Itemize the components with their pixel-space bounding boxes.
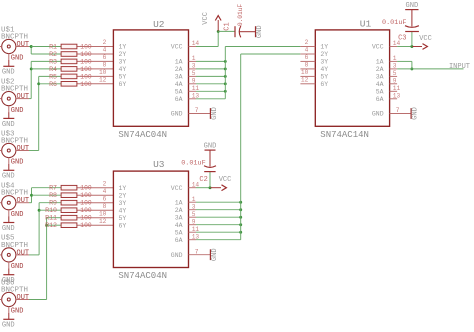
svg-text:GND: GND [211, 107, 219, 120]
svg-text:9: 9 [393, 77, 397, 84]
svg-text:R12: R12 [45, 222, 57, 229]
svg-text:VCC: VCC [171, 44, 183, 51]
svg-text:R10: R10 [45, 207, 57, 214]
U3 pin 7 GND stub [189, 248, 211, 255]
junction on bus2 at row 5A [239, 231, 242, 234]
svg-text:GND: GND [171, 111, 183, 118]
svg-text:5: 5 [192, 211, 196, 218]
ground symbol below U$1 [2, 60, 15, 77]
svg-text:GND: GND [11, 211, 24, 219]
capacitor C3 0.01uF [382, 19, 419, 47]
svg-text:6Y: 6Y [119, 81, 127, 88]
junction on bus at row 2A [224, 67, 227, 70]
U1 pin 10 (=5Y) stub [300, 69, 315, 76]
svg-text:8: 8 [103, 62, 107, 69]
svg-text:1A: 1A [175, 59, 183, 66]
svg-text:GND: GND [204, 142, 217, 150]
svg-text:5A: 5A [175, 88, 183, 95]
svg-text:5A: 5A [376, 88, 384, 95]
U2 pin 13 (=6A) stub and net wire [189, 92, 226, 99]
svg-text:11: 11 [393, 85, 401, 92]
wire U$3 OUT to R5/R6 [29, 76, 39, 150]
junction on bus2 at row 2A [239, 208, 242, 211]
ground symbol below U$5 [2, 268, 15, 285]
wire U1 pin 1 to INPUT node [397, 61, 412, 69]
junction INPUT node [410, 67, 413, 70]
svg-text:4: 4 [305, 47, 309, 54]
wire bus U3 to U1 pin 4 [241, 53, 301, 55]
svg-text:8: 8 [305, 62, 309, 69]
svg-text:R3: R3 [49, 58, 57, 65]
U3 pin 13 (=6A) stub and net wire [189, 233, 241, 240]
svg-text:7: 7 [195, 248, 199, 255]
svg-text:12: 12 [99, 218, 107, 225]
svg-text:3A: 3A [376, 74, 384, 81]
svg-text:100: 100 [80, 185, 92, 192]
wire U$4 OUT to R7/R8 [29, 188, 32, 203]
ground symbol above C2 [204, 142, 217, 150]
U2 pin 9 (=4A) stub and net wire [189, 77, 226, 84]
svg-text:C3: C3 [398, 34, 406, 42]
VCC symbol (right arrow) at U3 [210, 176, 231, 190]
svg-text:6: 6 [103, 195, 107, 202]
svg-text:4Y: 4Y [119, 207, 127, 214]
junction at (32,195) [30, 194, 33, 197]
svg-text:C1: C1 [224, 22, 232, 30]
svg-text:100: 100 [80, 81, 92, 88]
svg-text:100: 100 [80, 222, 92, 229]
svg-text:1Y: 1Y [320, 44, 328, 51]
wire bus U3 outputs (vertical) [240, 54, 242, 240]
svg-text:100: 100 [80, 58, 92, 65]
VCC symbol (right arrow) at U1 [412, 35, 432, 49]
svg-text:13: 13 [393, 92, 401, 99]
U1 pin 1 (=1A) stub [390, 55, 398, 62]
U1 pin 6 (=3Y) stub [300, 54, 315, 61]
svg-text:3Y: 3Y [119, 59, 127, 66]
svg-text:5Y: 5Y [119, 215, 127, 222]
svg-text:GND: GND [11, 107, 24, 115]
svg-text:R8: R8 [49, 192, 57, 199]
svg-text:U3: U3 [153, 159, 165, 170]
U3 pin 1 (=1A) stub and net wire [189, 196, 241, 203]
svg-text:10: 10 [301, 69, 309, 76]
U2 pin 14 VCC stub and wire [189, 31, 219, 47]
svg-text:9: 9 [192, 77, 196, 84]
wire C2 to ground [209, 150, 211, 167]
op-amp/IC U3 SN74AC04N box [113, 171, 188, 267]
junction on bus at row 3A [224, 75, 227, 78]
svg-text:1A: 1A [175, 199, 183, 206]
svg-text:C2: C2 [199, 176, 207, 184]
svg-text:6: 6 [103, 54, 107, 61]
svg-text:GND: GND [11, 308, 24, 316]
svg-text:100: 100 [80, 200, 92, 207]
resistor R9 value 100 [39, 200, 113, 207]
ground symbol at U2 pin 7 [210, 107, 219, 120]
U1 pin 14 VCC stub and wire [390, 40, 412, 47]
wire net INPUT [397, 68, 463, 70]
wire U$5 OUT to R9/R10 [29, 203, 39, 255]
U2 pin 11 (=5A) stub and net wire [189, 85, 226, 92]
svg-text:OUT: OUT [17, 41, 30, 49]
wire C1 to ground [240, 31, 256, 33]
U1 pin 7 GND stub [390, 107, 412, 114]
resistor R5 value 100 [39, 73, 114, 80]
svg-text:GND: GND [412, 107, 420, 120]
svg-text:12: 12 [301, 76, 309, 83]
svg-text:OUT: OUT [17, 249, 30, 257]
U1 pin 12 (=6Y) stub [300, 76, 315, 83]
junction VCC node at U2 [217, 30, 220, 33]
connector U$5 (BNCPTH) [0, 235, 29, 271]
svg-text:GND: GND [2, 225, 15, 233]
svg-text:11: 11 [192, 85, 200, 92]
svg-text:R5: R5 [49, 73, 57, 80]
resistor R4 value 100 [31, 66, 113, 73]
connector U$2 (BNCPTH) [0, 78, 29, 114]
svg-text:GND: GND [2, 121, 15, 129]
U1 pin 5 (=3A) stub [390, 70, 398, 77]
U2 pin 7 GND stub [189, 107, 211, 114]
junction on bus at row 4A [224, 82, 227, 85]
svg-text:GND: GND [2, 322, 15, 330]
junction VCC node at U1 [410, 45, 413, 48]
svg-text:2Y: 2Y [119, 192, 127, 199]
junction on bus2 at row 3A [239, 216, 242, 219]
svg-text:1Y: 1Y [119, 185, 127, 192]
junction on bus at row 1A [224, 60, 227, 63]
svg-text:13: 13 [192, 92, 200, 99]
svg-text:VCC: VCC [171, 185, 183, 192]
svg-text:3A: 3A [175, 214, 183, 221]
connector U$3 (BNCPTH) [0, 130, 29, 166]
svg-text:2: 2 [103, 180, 107, 187]
wire C3 to ground [411, 10, 413, 27]
svg-text:GND: GND [372, 111, 384, 118]
svg-text:GND: GND [2, 69, 15, 77]
svg-text:R7: R7 [49, 185, 57, 192]
junction on bus2 at row 4A [239, 223, 242, 226]
svg-text:VCC: VCC [372, 44, 384, 51]
U3 pin 14 VCC stub and wire [189, 181, 211, 188]
U3 pin 11 (=5A) stub and net wire [189, 226, 241, 233]
U1 pin 2 (=1Y) stub [300, 39, 315, 46]
svg-text:INPUT: INPUT [449, 63, 470, 71]
U1 pin 9 (=4A) stub [390, 77, 398, 84]
svg-text:4Y: 4Y [119, 66, 127, 73]
junction at (31,69) [30, 67, 33, 70]
svg-text:4A: 4A [175, 222, 183, 229]
wire bus U2 outputs (vertical) [224, 47, 226, 99]
svg-text:R6: R6 [49, 81, 57, 88]
ground symbol below U$4 [2, 216, 15, 233]
svg-text:2: 2 [305, 39, 309, 46]
junction on bus2 at row 1A [239, 201, 242, 204]
svg-text:R4: R4 [49, 66, 57, 73]
svg-text:7: 7 [195, 107, 199, 114]
svg-text:2Y: 2Y [320, 51, 328, 58]
svg-text:GND: GND [171, 252, 183, 259]
ground symbol at U1 pin 7 [411, 107, 420, 120]
svg-text:4A: 4A [376, 81, 384, 88]
svg-text:6: 6 [305, 54, 309, 61]
svg-text:11: 11 [192, 226, 200, 233]
svg-text:U2: U2 [153, 19, 165, 30]
resistor R2 value 100 [31, 51, 113, 58]
svg-text:GND: GND [406, 2, 419, 10]
wire U$1 OUT to R1/R2 [29, 47, 31, 55]
svg-text:1A: 1A [376, 59, 384, 66]
svg-text:2A: 2A [175, 66, 183, 73]
svg-text:100: 100 [80, 43, 92, 50]
svg-text:14: 14 [192, 181, 200, 188]
resistor R10 value 100 [39, 207, 113, 214]
svg-text:OUT: OUT [17, 197, 30, 205]
svg-text:100: 100 [80, 73, 92, 80]
svg-text:7: 7 [396, 107, 400, 114]
wire U$2 OUT to R3/R4 [29, 61, 31, 98]
svg-text:GND: GND [2, 173, 15, 181]
svg-text:12: 12 [99, 76, 107, 83]
connector U$4 (BNCPTH) [0, 183, 29, 219]
svg-text:3: 3 [393, 63, 397, 70]
svg-text:GND: GND [11, 263, 24, 271]
svg-text:R11: R11 [45, 215, 57, 222]
svg-text:SN74AC04N: SN74AC04N [118, 271, 167, 281]
junction on bus at row 5A [224, 90, 227, 93]
svg-text:3Y: 3Y [320, 59, 328, 66]
svg-text:2A: 2A [376, 66, 384, 73]
svg-text:5: 5 [192, 70, 196, 77]
svg-text:U1: U1 [360, 19, 372, 30]
svg-text:1: 1 [393, 55, 397, 62]
svg-text:R9: R9 [49, 200, 57, 207]
wire U$6 OUT to R11/R12 [29, 218, 47, 300]
svg-text:GND: GND [211, 248, 219, 261]
junction VCC node at U3 [209, 186, 212, 189]
ground symbol right of C1 [256, 25, 264, 38]
junction at (39,210) [38, 209, 41, 212]
svg-text:VCC: VCC [202, 12, 210, 25]
capacitor C1 0.01uF [218, 4, 244, 38]
svg-text:0.01uF: 0.01uF [237, 4, 244, 27]
svg-text:2: 2 [103, 39, 107, 46]
svg-text:3: 3 [192, 203, 196, 210]
ground symbol below U$3 [2, 164, 15, 181]
svg-text:3Y: 3Y [119, 200, 127, 207]
svg-text:4: 4 [103, 188, 107, 195]
op-amp/IC U2 SN74AC04N box [113, 30, 188, 126]
svg-text:3: 3 [192, 63, 196, 70]
svg-text:4Y: 4Y [320, 66, 328, 73]
svg-text:VCC: VCC [419, 35, 432, 43]
op-amp/IC U1 SN74AC14N box [315, 30, 389, 126]
U1 pin 13 (=6A) stub [390, 92, 401, 99]
svg-text:GND: GND [256, 25, 264, 38]
junction at (47,225) [45, 224, 48, 227]
svg-text:6Y: 6Y [320, 81, 328, 88]
connector U$6 (BNCPTH) [0, 279, 29, 315]
svg-text:1: 1 [192, 55, 196, 62]
resistor R11 value 100 [45, 215, 113, 222]
VCC symbol (up arrow) at U2 [202, 12, 221, 31]
svg-text:5A: 5A [175, 229, 183, 236]
svg-text:1Y: 1Y [119, 44, 127, 51]
svg-text:R2: R2 [49, 51, 57, 58]
U2 pin 3 (=2A) stub and net wire [189, 63, 226, 70]
ground symbol below U$2 [2, 112, 15, 129]
svg-text:GND: GND [11, 159, 24, 167]
connector U$1 (BNCPTH) [0, 26, 29, 62]
svg-text:10: 10 [99, 210, 107, 217]
capacitor C2 0.01uF [181, 160, 216, 188]
svg-text:100: 100 [80, 66, 92, 73]
resistor R6 value 100 [39, 81, 114, 88]
resistor R3 value 100 [31, 58, 113, 65]
U1 pin 4 (=2Y) stub [300, 47, 315, 54]
svg-text:6A: 6A [376, 96, 384, 103]
junction at (31,46) [30, 45, 33, 48]
svg-text:VCC: VCC [219, 176, 232, 184]
resistor R12 value 100 [45, 222, 113, 229]
svg-text:OUT: OUT [17, 93, 30, 101]
svg-text:2A: 2A [175, 207, 183, 214]
ground symbol below U$6 [2, 313, 15, 330]
svg-text:6Y: 6Y [119, 222, 127, 229]
svg-text:SN74AC14N: SN74AC14N [320, 130, 369, 140]
U1 pin 3 (=2A) stub [390, 63, 398, 70]
svg-text:OUT: OUT [17, 294, 30, 302]
resistor R7 value 100 [32, 185, 114, 192]
svg-text:5Y: 5Y [320, 74, 328, 81]
svg-text:100: 100 [80, 215, 92, 222]
svg-text:GND: GND [11, 55, 24, 63]
svg-text:SN74AC04N: SN74AC04N [118, 130, 167, 140]
svg-text:8: 8 [103, 203, 107, 210]
svg-text:5Y: 5Y [119, 74, 127, 81]
U3 pin 9 (=4A) stub and net wire [189, 218, 241, 225]
svg-text:4A: 4A [175, 81, 183, 88]
U3 pin 3 (=2A) stub and net wire [189, 203, 241, 210]
junction at (39,84) [37, 82, 40, 85]
svg-text:9: 9 [192, 218, 196, 225]
svg-text:3A: 3A [175, 74, 183, 81]
resistor R1 value 100 [31, 43, 113, 50]
wire bus U2 to U1 pin 2 [225, 46, 300, 48]
U3 pin 5 (=3A) stub and net wire [189, 211, 241, 218]
ground symbol above C3 [405, 2, 418, 10]
svg-text:0.01uF: 0.01uF [181, 160, 205, 168]
svg-text:1: 1 [192, 196, 196, 203]
svg-text:4: 4 [103, 47, 107, 54]
svg-text:6A: 6A [175, 237, 183, 244]
svg-text:R1: R1 [49, 43, 57, 50]
svg-text:OUT: OUT [17, 145, 30, 153]
resistor R8 value 100 [32, 192, 114, 199]
svg-text:2Y: 2Y [119, 51, 127, 58]
U1 pin 8 (=4Y) stub [300, 62, 315, 69]
svg-text:5: 5 [393, 70, 397, 77]
svg-text:10: 10 [99, 69, 107, 76]
svg-text:100: 100 [80, 192, 92, 199]
svg-text:100: 100 [80, 51, 92, 58]
svg-text:100: 100 [80, 207, 92, 214]
svg-text:14: 14 [192, 40, 200, 47]
U1 pin 11 (=5A) stub [390, 85, 401, 92]
U2 pin 5 (=3A) stub and net wire [189, 70, 226, 77]
svg-text:6A: 6A [175, 96, 183, 103]
ground symbol at U3 pin 7 [210, 248, 219, 261]
svg-text:0.01uF: 0.01uF [382, 19, 406, 27]
svg-text:13: 13 [192, 233, 200, 240]
U2 pin 1 (=1A) stub and net wire [189, 55, 226, 62]
